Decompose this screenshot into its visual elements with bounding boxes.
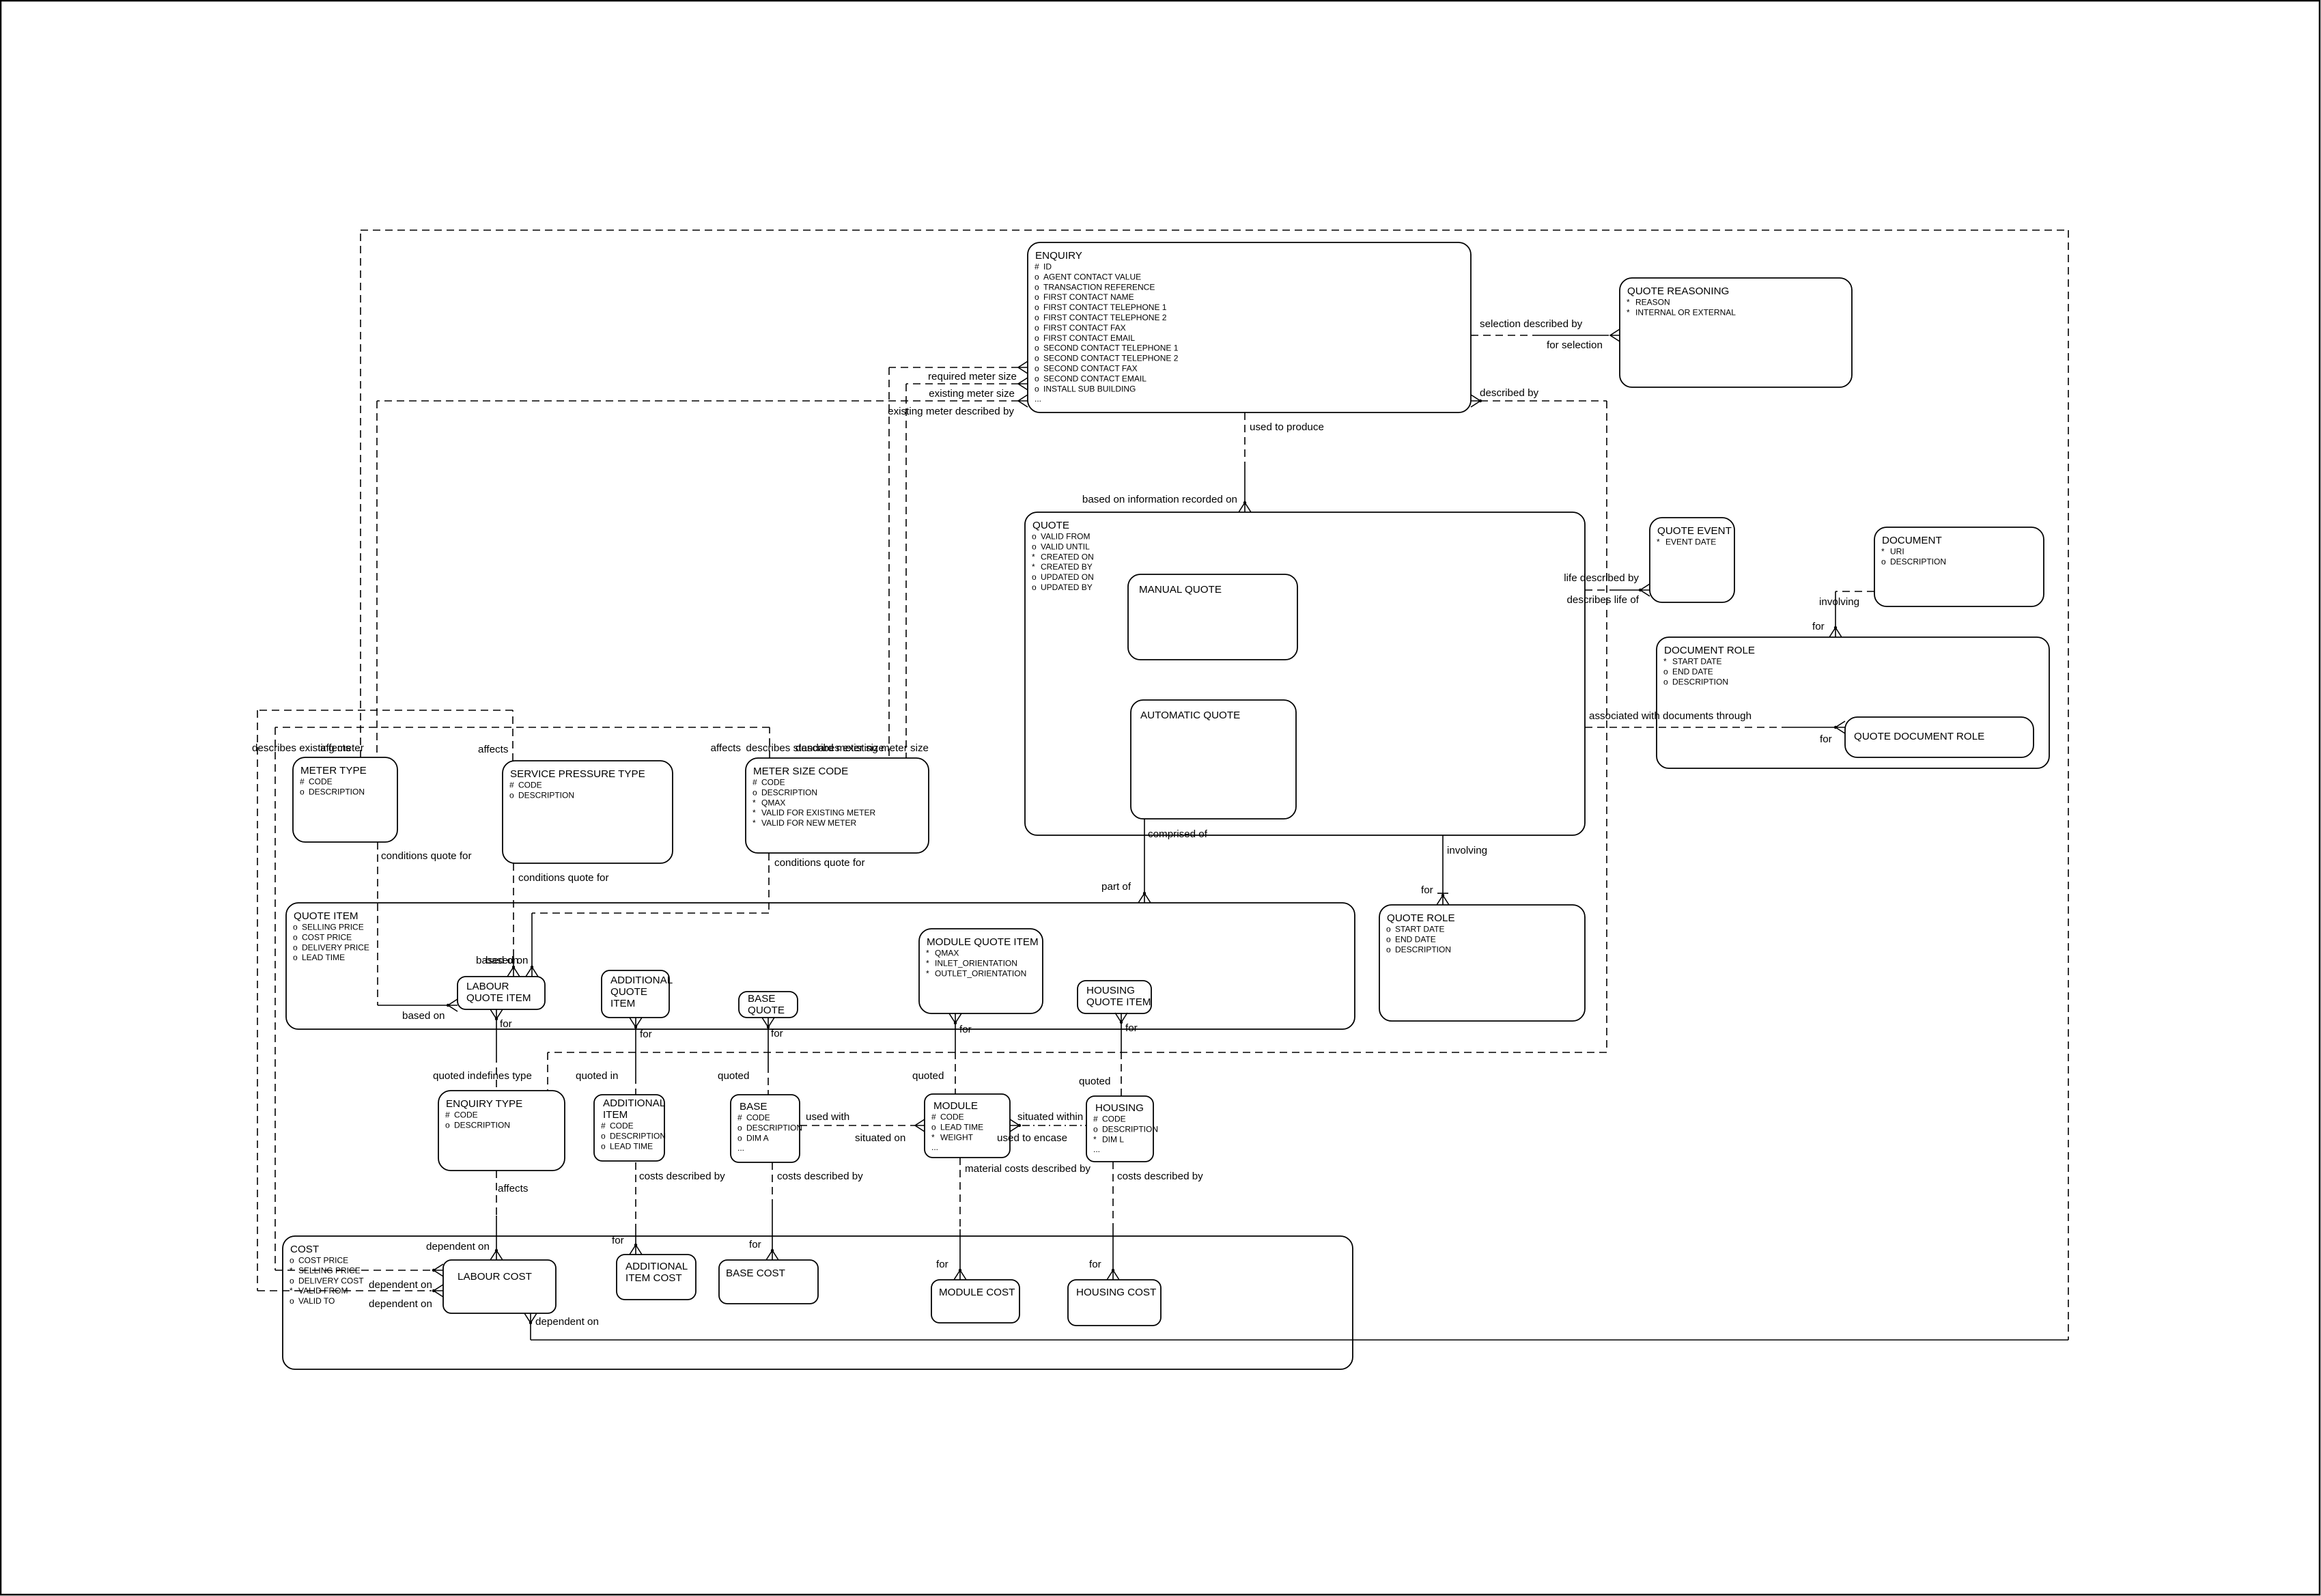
svg-text:#: # (1093, 1115, 1098, 1124)
svg-text:DESCRIPTION: DESCRIPTION (1672, 677, 1728, 686)
svg-text:COST: COST (290, 1244, 319, 1255)
svg-text:ENQUIRY TYPE: ENQUIRY TYPE (446, 1098, 522, 1110)
entity ENQUIRY TYPE (438, 1091, 565, 1171)
svg-text:LEAD TIME: LEAD TIME (610, 1141, 653, 1151)
wire relationship QUOTE involving QUOTE ROLE: vertical (1442, 835, 1444, 895)
svg-text:MODULE QUOTE ITEM: MODULE QUOTE ITEM (927, 936, 1039, 948)
wire relationship MSC-LABOUR COST: left vertical (275, 727, 276, 1270)
wire relationship QUOTE associated with documents through: solid part (1789, 727, 1837, 728)
svg-text:dependent on: dependent on (369, 1279, 432, 1291)
svg-text:#: # (752, 778, 757, 787)
wire relationship ENQUIRY described by ENQUIRY TYPE: horizontal from ENQUIRY (1480, 400, 1607, 402)
svg-text:o: o (601, 1141, 606, 1151)
svg-text:FIRST CONTACT TELEPHONE 1: FIRST CONTACT TELEPHONE 1 (1043, 303, 1167, 312)
svg-text:existing meter described by: existing meter described by (888, 406, 1014, 417)
svg-text:*: * (926, 949, 929, 958)
svg-text:END DATE: END DATE (1672, 667, 1713, 676)
wire relationship MSC-LABOUR COST: horizontal (275, 727, 770, 728)
svg-text:*: * (290, 1286, 293, 1296)
svg-text:END DATE: END DATE (1395, 934, 1436, 944)
svg-text:QUOTE REASONING: QUOTE REASONING (1627, 285, 1729, 297)
svg-text:VALID FROM: VALID FROM (298, 1286, 348, 1296)
wire relationship METER TYPE-LABOUR COST: riser to LABOUR COST (530, 1323, 531, 1340)
wire relationship ADDITIONAL QUOTE ITEM for ADDITIONAL ITEM (quoted in): crow foot (630, 1018, 642, 1027)
wire relationship ENQUIRY used to produce QUOTE: dashed part (1244, 412, 1246, 463)
entity BASE (731, 1095, 802, 1162)
entity AUTOMATIC QUOTE (subtype of QUOTE) (1131, 700, 1296, 819)
svg-text:AGENT CONTACT VALUE: AGENT CONTACT VALUE (1043, 272, 1141, 281)
svg-text:o: o (290, 1256, 294, 1265)
svg-text:SELLING PRICE: SELLING PRICE (298, 1265, 361, 1275)
wire relationship BASE costs described by BASE COST: dashed part (772, 1162, 773, 1201)
crow foot at MODULE right (used to encase) (1010, 1119, 1019, 1132)
svg-text:QUOTE: QUOTE (748, 1005, 785, 1016)
svg-text:CODE: CODE (454, 1110, 478, 1120)
svg-text:ITEM: ITEM (603, 1109, 628, 1121)
svg-text:quoted: quoted (1079, 1076, 1110, 1087)
svg-text:affects: affects (711, 742, 742, 754)
svg-text:*: * (752, 808, 756, 817)
wire relationship SERVICE PRESSURE TYPE conditions quote for: vertical dashed (513, 863, 514, 955)
svg-text:HOUSING COST: HOUSING COST (1076, 1287, 1156, 1298)
svg-text:required meter size: required meter size (928, 371, 1017, 382)
wire relationship ENQUIRY described by ENQUIRY TYPE: long horizontal (548, 1052, 1607, 1053)
svg-text:o: o (293, 923, 298, 932)
crow foot at MODULE left (situated on) (915, 1119, 925, 1132)
svg-text:describes life of: describes life of (1566, 594, 1639, 606)
svg-text:BASE: BASE (740, 1101, 768, 1112)
svg-text:*: * (931, 1132, 935, 1142)
wire relationship DOCUMENT involving DOCUMENT ROLE: vertical (1835, 591, 1836, 628)
svg-text:START DATE: START DATE (1395, 925, 1444, 934)
wire relationship MODULE material costs described by MODULE COST: solid part (959, 1229, 961, 1270)
svg-text:o: o (1035, 333, 1039, 343)
svg-text:described by: described by (1480, 387, 1539, 399)
wire relationship ENQUIRY TYPE affects LABOUR COST: solid part (496, 1216, 497, 1250)
svg-text:DESCRIPTION: DESCRIPTION (518, 790, 574, 800)
wire relationship METER TYPE conditions quote for: horizontal to LABOUR QUOTE ITEM (378, 1005, 447, 1006)
svg-text:EVENT DATE: EVENT DATE (1665, 537, 1716, 547)
svg-text:URI: URI (1890, 547, 1904, 557)
svg-text:SECOND CONTACT TELEPHONE 2: SECOND CONTACT TELEPHONE 2 (1043, 354, 1179, 363)
entity MANUAL QUOTE (subtype of QUOTE) (1128, 574, 1297, 660)
svg-text:COST PRICE: COST PRICE (302, 932, 352, 942)
crow foot at LABOUR COST top (dependent on) (490, 1250, 503, 1260)
svg-text:for: for (1125, 1022, 1138, 1034)
svg-text:INSTALL SUB BUILDING: INSTALL SUB BUILDING (1043, 384, 1136, 393)
svg-text:involving: involving (1819, 596, 1859, 608)
svg-text:associated with documents thro: associated with documents through (1589, 710, 1752, 722)
svg-text:DELIVERY COST: DELIVERY COST (298, 1276, 364, 1285)
svg-text:BASE: BASE (748, 993, 776, 1005)
entity SERVICE PRESSURE TYPE (503, 761, 673, 863)
svg-text:for: for (612, 1235, 624, 1246)
svg-text:FIRST CONTACT EMAIL: FIRST CONTACT EMAIL (1043, 333, 1135, 343)
wire relationship METER TYPE conditions quote for: vertical below METER TYPE (377, 842, 378, 1005)
wire relationship MODULE situated within HOUSING: dash-dot (1022, 1125, 1086, 1126)
entity METER SIZE CODE (746, 758, 929, 853)
svg-text:o: o (931, 1122, 936, 1132)
svg-text:DELIVERY PRICE: DELIVERY PRICE (302, 942, 369, 952)
svg-text:DESCRIPTION: DESCRIPTION (1102, 1124, 1158, 1134)
svg-text:MODULE: MODULE (933, 1100, 978, 1112)
svg-text:affects: affects (478, 744, 509, 755)
svg-text:...: ... (1093, 1145, 1100, 1154)
entity QUOTE DOCUMENT ROLE (subtype of DOCUMENT ROLE) (1845, 717, 2034, 757)
svg-text:*: * (290, 1265, 293, 1275)
svg-text:DIM L: DIM L (1102, 1134, 1124, 1144)
svg-text:VALID UNTIL: VALID UNTIL (1041, 542, 1090, 551)
svg-text:describes existing meter size: describes existing meter size (796, 742, 929, 754)
svg-text:for: for (1089, 1259, 1101, 1270)
svg-text:o: o (1035, 282, 1039, 292)
svg-text:VALID FOR EXISTING METER: VALID FOR EXISTING METER (761, 808, 875, 817)
svg-text:#: # (300, 777, 305, 787)
crow foot at ENQUIRY left (required meter size) (1018, 361, 1028, 374)
wire relationship METER SIZE CODE conditions quote for: horizontal (532, 912, 769, 914)
svg-text:o: o (1032, 572, 1037, 582)
svg-text:CODE: CODE (309, 777, 333, 787)
svg-text:quoted in: quoted in (576, 1070, 619, 1082)
svg-text:DIM A: DIM A (746, 1133, 769, 1143)
wire relationship MODULE QUOTE ITEM for MODULE (quoted): crow foot (949, 1013, 961, 1023)
svg-text:METER SIZE CODE: METER SIZE CODE (753, 766, 848, 777)
wire relationship METER TYPE-LABOUR COST: right vertical (2068, 230, 2069, 1340)
svg-text:*: * (1657, 537, 1660, 547)
wire relationship METER SIZE CODE conditions quote for: vertical solid (531, 913, 533, 967)
svg-text:for: for (640, 1028, 652, 1040)
wire relationship ADDITIONAL ITEM costs described by ADDITIONAL ITEM COST: solid part (635, 1230, 636, 1245)
wire relationship SPT-LABOUR COST: horizontal (257, 710, 513, 711)
wire relationship METER SIZE CODE affects LABOUR COST: vertical into MSC top (769, 727, 770, 758)
svg-text:QMAX: QMAX (761, 798, 785, 807)
svg-text:DESCRIPTION: DESCRIPTION (1890, 557, 1946, 566)
svg-text:*: * (1032, 562, 1035, 572)
svg-text:QUOTE: QUOTE (1032, 520, 1069, 531)
entity COST (283, 1236, 1353, 1369)
entity METER TYPE (293, 757, 397, 842)
crow foot at ENQUIRY left (existing meter described by) (1018, 395, 1028, 407)
svg-text:QUOTE ITEM: QUOTE ITEM (466, 992, 531, 1004)
svg-text:situated on: situated on (855, 1132, 905, 1144)
svg-text:SECOND CONTACT EMAIL: SECOND CONTACT EMAIL (1043, 374, 1147, 383)
svg-text:ID: ID (1043, 262, 1052, 272)
svg-text:for: for (936, 1259, 948, 1270)
svg-text:SECOND CONTACT TELEPHONE 1: SECOND CONTACT TELEPHONE 1 (1043, 344, 1179, 353)
svg-text:o: o (1386, 925, 1391, 934)
svg-text:INTERNAL OR EXTERNAL: INTERNAL OR EXTERNAL (1635, 307, 1736, 317)
svg-text:o: o (1093, 1124, 1098, 1134)
svg-text:METER TYPE: METER TYPE (300, 765, 367, 776)
crow foot at LABOUR QUOTE ITEM top left (based on) (507, 967, 520, 977)
svg-text:QUOTE EVENT: QUOTE EVENT (1657, 525, 1732, 537)
svg-text:#: # (445, 1110, 450, 1120)
wire relationship LABOUR QUOTE ITEM for ENQUIRY TYPE (quoted in): crow foot (490, 1009, 503, 1019)
svg-text:ADDITIONAL: ADDITIONAL (603, 1097, 665, 1109)
wire relationship ENQUIRY selection described by: dashed part (1471, 335, 1540, 336)
entity BASE COST (subtype of COST) (719, 1260, 818, 1304)
svg-text:DESCRIPTION: DESCRIPTION (309, 787, 365, 796)
entity LABOUR COST (subtype of COST) (443, 1260, 556, 1313)
svg-text:*: * (1627, 298, 1630, 307)
entity DOCUMENT ROLE (1657, 637, 2049, 768)
svg-text:COST PRICE: COST PRICE (298, 1256, 348, 1265)
wire relationship QUOTE associated with documents through: dashed part (1585, 727, 1789, 728)
svg-text:QUOTE ITEM: QUOTE ITEM (1086, 996, 1151, 1008)
svg-text:o: o (1032, 583, 1037, 592)
wire relationship QUOTE life described by QUOTE EVENT: solid part (1613, 589, 1642, 591)
svg-text:costs described by: costs described by (777, 1171, 863, 1182)
wire relationship HOUSING QUOTE ITEM for HOUSING (quoted): solid part (1121, 1022, 1122, 1052)
svg-text:comprised of: comprised of (1148, 828, 1208, 840)
svg-text:o: o (1663, 667, 1668, 676)
svg-text:REASON: REASON (1635, 298, 1670, 307)
svg-text:for: for (1421, 884, 1433, 896)
entity DOCUMENT (1874, 527, 2044, 606)
svg-text:VALID FOR NEW METER: VALID FOR NEW METER (761, 818, 856, 828)
crow foot at DOCUMENT ROLE top (for) (1829, 628, 1842, 637)
wire relationship ADDITIONAL ITEM costs described by ADDITIONAL ITEM COST: crow foot (630, 1245, 642, 1255)
svg-text:#: # (737, 1113, 742, 1123)
svg-text:o: o (300, 787, 305, 796)
svg-text:SELLING PRICE: SELLING PRICE (302, 923, 364, 932)
svg-text:QUOTE DOCUMENT ROLE: QUOTE DOCUMENT ROLE (1854, 731, 1984, 742)
svg-text:#: # (1035, 262, 1039, 272)
svg-text:ITEM COST: ITEM COST (625, 1272, 682, 1284)
svg-text:o: o (1035, 344, 1039, 353)
svg-text:o: o (1386, 934, 1391, 944)
svg-text:dependent on: dependent on (369, 1298, 432, 1310)
wire relationship SERVICE PRESSURE TYPE affects LABOUR COST: vertical into SPT top (512, 710, 514, 761)
wire relationship ADDITIONAL ITEM costs described by ADDITIONAL ITEM COST: dashed part (635, 1162, 636, 1230)
crow foot at LABOUR COST left (dependent on, lower) (434, 1285, 443, 1297)
svg-text:o: o (737, 1133, 742, 1143)
svg-text:DESCRIPTION: DESCRIPTION (454, 1120, 510, 1130)
wire relationship ENQUIRY existing meter described by: vertical to METER TYPE top (376, 401, 378, 757)
wire relationship MODULE material costs described by MODULE COST: dashed part (959, 1158, 961, 1229)
svg-text:DESCRIPTION: DESCRIPTION (761, 787, 817, 797)
svg-text:CODE: CODE (746, 1113, 770, 1123)
svg-text:o: o (1032, 532, 1037, 542)
svg-text:*: * (1627, 307, 1630, 317)
wire relationship HOUSING costs described by HOUSING COST: dashed part (1112, 1162, 1114, 1229)
wire relationship ADDITIONAL QUOTE ITEM for ADDITIONAL ITEM (quoted in): dashed part (635, 1076, 636, 1095)
entity ADDITIONAL QUOTE ITEM (subtype of QUOTE ITEM) (602, 970, 673, 1018)
wire relationship DOCUMENT involving DOCUMENT ROLE: dashed part (1835, 591, 1874, 592)
svg-text:o: o (1035, 313, 1039, 322)
wire relationship SERVICE PRESSURE TYPE conditions quote for: vertical solid (513, 955, 514, 967)
svg-text:for: for (500, 1018, 512, 1030)
svg-text:dependent on: dependent on (535, 1316, 599, 1328)
svg-text:ADDITIONAL: ADDITIONAL (625, 1261, 688, 1272)
svg-text:FIRST CONTACT NAME: FIRST CONTACT NAME (1043, 292, 1134, 302)
svg-text:FIRST CONTACT TELEPHONE 2: FIRST CONTACT TELEPHONE 2 (1043, 313, 1167, 322)
svg-text:LEAD TIME: LEAD TIME (302, 953, 345, 962)
svg-text:MANUAL QUOTE: MANUAL QUOTE (1139, 584, 1222, 596)
crow foot at LABOUR COST bottom (dependent on) (524, 1313, 537, 1323)
svg-text:*: * (752, 798, 756, 807)
svg-text:costs described by: costs described by (639, 1171, 725, 1182)
svg-text:for: for (1820, 733, 1832, 745)
entity LABOUR QUOTE ITEM (subtype of QUOTE ITEM) (458, 977, 545, 1009)
svg-text:SECOND CONTACT FAX: SECOND CONTACT FAX (1043, 364, 1138, 374)
wire relationship BASE QUOTE for BASE (quoted): solid part (768, 1027, 769, 1065)
svg-text:conditions quote for: conditions quote for (518, 872, 609, 884)
svg-text:HOUSING: HOUSING (1086, 985, 1135, 996)
svg-text:o: o (509, 790, 514, 800)
svg-text:costs described by: costs described by (1117, 1171, 1203, 1182)
svg-text:...: ... (1035, 394, 1041, 404)
svg-text:o: o (293, 953, 298, 962)
wire relationship ENQUIRY required meter size: horizontal (889, 367, 1019, 368)
crow foot at LABOUR COST left (dependent on, upper) (434, 1264, 443, 1276)
wire relationship METER TYPE-LABOUR COST: top horizontal (361, 229, 2068, 231)
svg-text:o: o (1035, 364, 1039, 374)
svg-text:ITEM: ITEM (610, 998, 635, 1009)
svg-text:UPDATED ON: UPDATED ON (1041, 572, 1094, 582)
svg-text:based on: based on (402, 1010, 445, 1022)
svg-text:quoted: quoted (912, 1070, 944, 1082)
svg-text:o: o (1663, 677, 1668, 686)
svg-text:o: o (1881, 557, 1886, 566)
wire relationship BASE costs described by BASE COST: solid part (772, 1201, 773, 1250)
wire relationship METER TYPE affects LABOUR COST: vertical into METER TYPE top (360, 230, 361, 757)
svg-text:o: o (1035, 374, 1039, 383)
svg-text:LABOUR: LABOUR (466, 981, 509, 992)
wire relationship LABOUR QUOTE ITEM for ENQUIRY TYPE (quoted in): dashed part (496, 1055, 497, 1091)
wire relationship ENQUIRY selection described by: solid part (1540, 335, 1609, 336)
svg-text:...: ... (931, 1143, 938, 1152)
svg-text:LABOUR COST: LABOUR COST (458, 1271, 532, 1283)
svg-text:conditions quote for: conditions quote for (381, 850, 472, 862)
svg-text:existing meter size: existing meter size (929, 388, 1015, 400)
svg-text:part of: part of (1101, 881, 1131, 893)
svg-text:life described by: life described by (1564, 572, 1639, 584)
entity BASE QUOTE (subtype of QUOTE ITEM) (739, 992, 798, 1018)
svg-text:o: o (1035, 303, 1039, 312)
wire relationship QUOTE life described by QUOTE EVENT: dashed part (1585, 589, 1613, 591)
svg-text:o: o (1386, 944, 1391, 954)
wire relationship ENQUIRY existing meter described by: horizontal (377, 400, 1019, 402)
entity QUOTE (1025, 512, 1585, 835)
svg-text:TRANSACTION REFERENCE: TRANSACTION REFERENCE (1043, 282, 1155, 292)
svg-text:used to produce: used to produce (1250, 421, 1324, 433)
wire relationship ENQUIRY existing meter size: vertical to METER SIZE CODE (905, 384, 907, 758)
entity QUOTE ROLE (1379, 905, 1585, 1021)
wire relationship BASE used with MODULE: dashed (800, 1125, 915, 1126)
crow foot at ENQUIRY left (existing meter size) (1018, 378, 1028, 390)
svg-text:for: for (749, 1239, 761, 1250)
svg-text:START DATE: START DATE (1672, 657, 1721, 667)
svg-text:for: for (771, 1028, 783, 1039)
svg-text:SERVICE PRESSURE TYPE: SERVICE PRESSURE TYPE (510, 768, 645, 780)
svg-text:QUOTE ROLE: QUOTE ROLE (1387, 912, 1455, 924)
wire relationship ENQUIRY TYPE affects LABOUR COST: dashed part (496, 1171, 497, 1216)
svg-text:o: o (293, 942, 298, 952)
crow foot at QUOTE ITEM top (part of) (1138, 893, 1151, 903)
crow foot at QUOTE REASONING left (for selection) (1610, 329, 1620, 341)
svg-text:QUOTE: QUOTE (610, 986, 647, 998)
wire relationship HOUSING QUOTE ITEM for HOUSING (quoted): dashed part (1121, 1052, 1122, 1096)
svg-text:INLET_ORIENTATION: INLET_ORIENTATION (935, 958, 1017, 968)
svg-text:CREATED ON: CREATED ON (1041, 552, 1094, 561)
wire relationship SPT-LABOUR COST: into LABOUR COST (through COST VALID FROM) (257, 1290, 432, 1291)
entity QUOTE ITEM (286, 903, 1355, 1029)
svg-text:#: # (601, 1121, 606, 1131)
svg-text:ENQUIRY: ENQUIRY (1035, 250, 1082, 262)
svg-text:WEIGHT: WEIGHT (940, 1132, 974, 1142)
wire relationship MSC-LABOUR COST: into LABOUR COST (through COST SELLING PRICE) (275, 1270, 432, 1271)
svg-text:VALID TO: VALID TO (298, 1296, 335, 1306)
svg-text:o: o (1035, 272, 1039, 281)
crow foot at ENQUIRY right (described by) (1471, 395, 1480, 407)
svg-text:QMAX: QMAX (935, 949, 959, 958)
svg-text:situated within: situated within (1017, 1111, 1083, 1123)
svg-text:involving: involving (1447, 845, 1487, 856)
svg-text:*: * (926, 968, 929, 978)
wire relationship HOUSING costs described by HOUSING COST: solid part (1112, 1229, 1114, 1270)
wire relationship QUOTE comprised of QUOTE ITEM: vertical (1144, 819, 1145, 892)
svg-text:for selection: for selection (1547, 339, 1603, 351)
svg-text:o: o (752, 787, 757, 797)
wire relationship LABOUR QUOTE ITEM for ENQUIRY TYPE (quoted in): solid part (496, 1019, 497, 1055)
wire relationship ENQUIRY described by ENQUIRY TYPE: right vertical (1606, 401, 1607, 1052)
wire relationship ENQUIRY required meter size: vertical to METER SIZE CODE (888, 367, 890, 758)
svg-text:UPDATED BY: UPDATED BY (1041, 583, 1093, 592)
svg-text:dependent on: dependent on (426, 1241, 490, 1252)
crow foot at LABOUR QUOTE ITEM top right (based on) (526, 967, 538, 977)
svg-text:o: o (290, 1296, 294, 1306)
wire relationship BASE QUOTE for BASE (quoted): dashed part (768, 1065, 769, 1095)
svg-text:*: * (1093, 1134, 1097, 1144)
svg-text:affects: affects (320, 742, 351, 754)
entity ENQUIRY (1028, 242, 1471, 412)
entity ADDITIONAL ITEM COST (subtype of COST) (617, 1255, 696, 1300)
svg-text:CREATED BY: CREATED BY (1041, 562, 1093, 572)
wire relationship ENQUIRY existing meter size: horizontal (906, 383, 1019, 384)
crow foot at LABOUR QUOTE ITEM left (based on) (448, 999, 458, 1011)
svg-text:*: * (752, 818, 756, 828)
wire relationship ADDITIONAL QUOTE ITEM for ADDITIONAL ITEM (quoted in): solid part (635, 1027, 636, 1076)
svg-text:...: ... (737, 1143, 744, 1153)
svg-text:DOCUMENT ROLE: DOCUMENT ROLE (1664, 645, 1755, 656)
svg-text:MODULE COST: MODULE COST (939, 1287, 1015, 1298)
svg-text:CODE: CODE (940, 1112, 964, 1122)
svg-text:for: for (959, 1024, 972, 1035)
svg-text:ADDITIONAL: ADDITIONAL (610, 975, 673, 986)
svg-text:CODE: CODE (1102, 1115, 1126, 1124)
entity QUOTE REASONING (1620, 278, 1852, 387)
entity QUOTE EVENT (1650, 518, 1734, 602)
svg-text:conditions quote for: conditions quote for (774, 857, 865, 869)
svg-text:LEAD TIME: LEAD TIME (940, 1122, 983, 1132)
svg-text:o: o (1035, 384, 1039, 393)
svg-text:o: o (290, 1276, 294, 1285)
svg-text:AUTOMATIC QUOTE: AUTOMATIC QUOTE (1140, 710, 1240, 721)
entity MODULE COST (subtype of COST) (931, 1280, 1019, 1323)
wire relationship ENQUIRY used to produce QUOTE: solid part (1244, 463, 1246, 503)
crow foot at QUOTE EVENT left (describes life of) (1640, 584, 1650, 596)
svg-text:o: o (1035, 323, 1039, 333)
svg-text:o: o (1032, 542, 1037, 551)
svg-text:HOUSING: HOUSING (1095, 1102, 1144, 1114)
svg-text:VALID FROM: VALID FROM (1041, 532, 1090, 542)
svg-text:for: for (1812, 621, 1825, 632)
svg-text:o: o (737, 1123, 742, 1132)
svg-text:o: o (601, 1131, 606, 1140)
svg-text:*: * (1881, 547, 1885, 557)
svg-text:o: o (445, 1120, 450, 1130)
